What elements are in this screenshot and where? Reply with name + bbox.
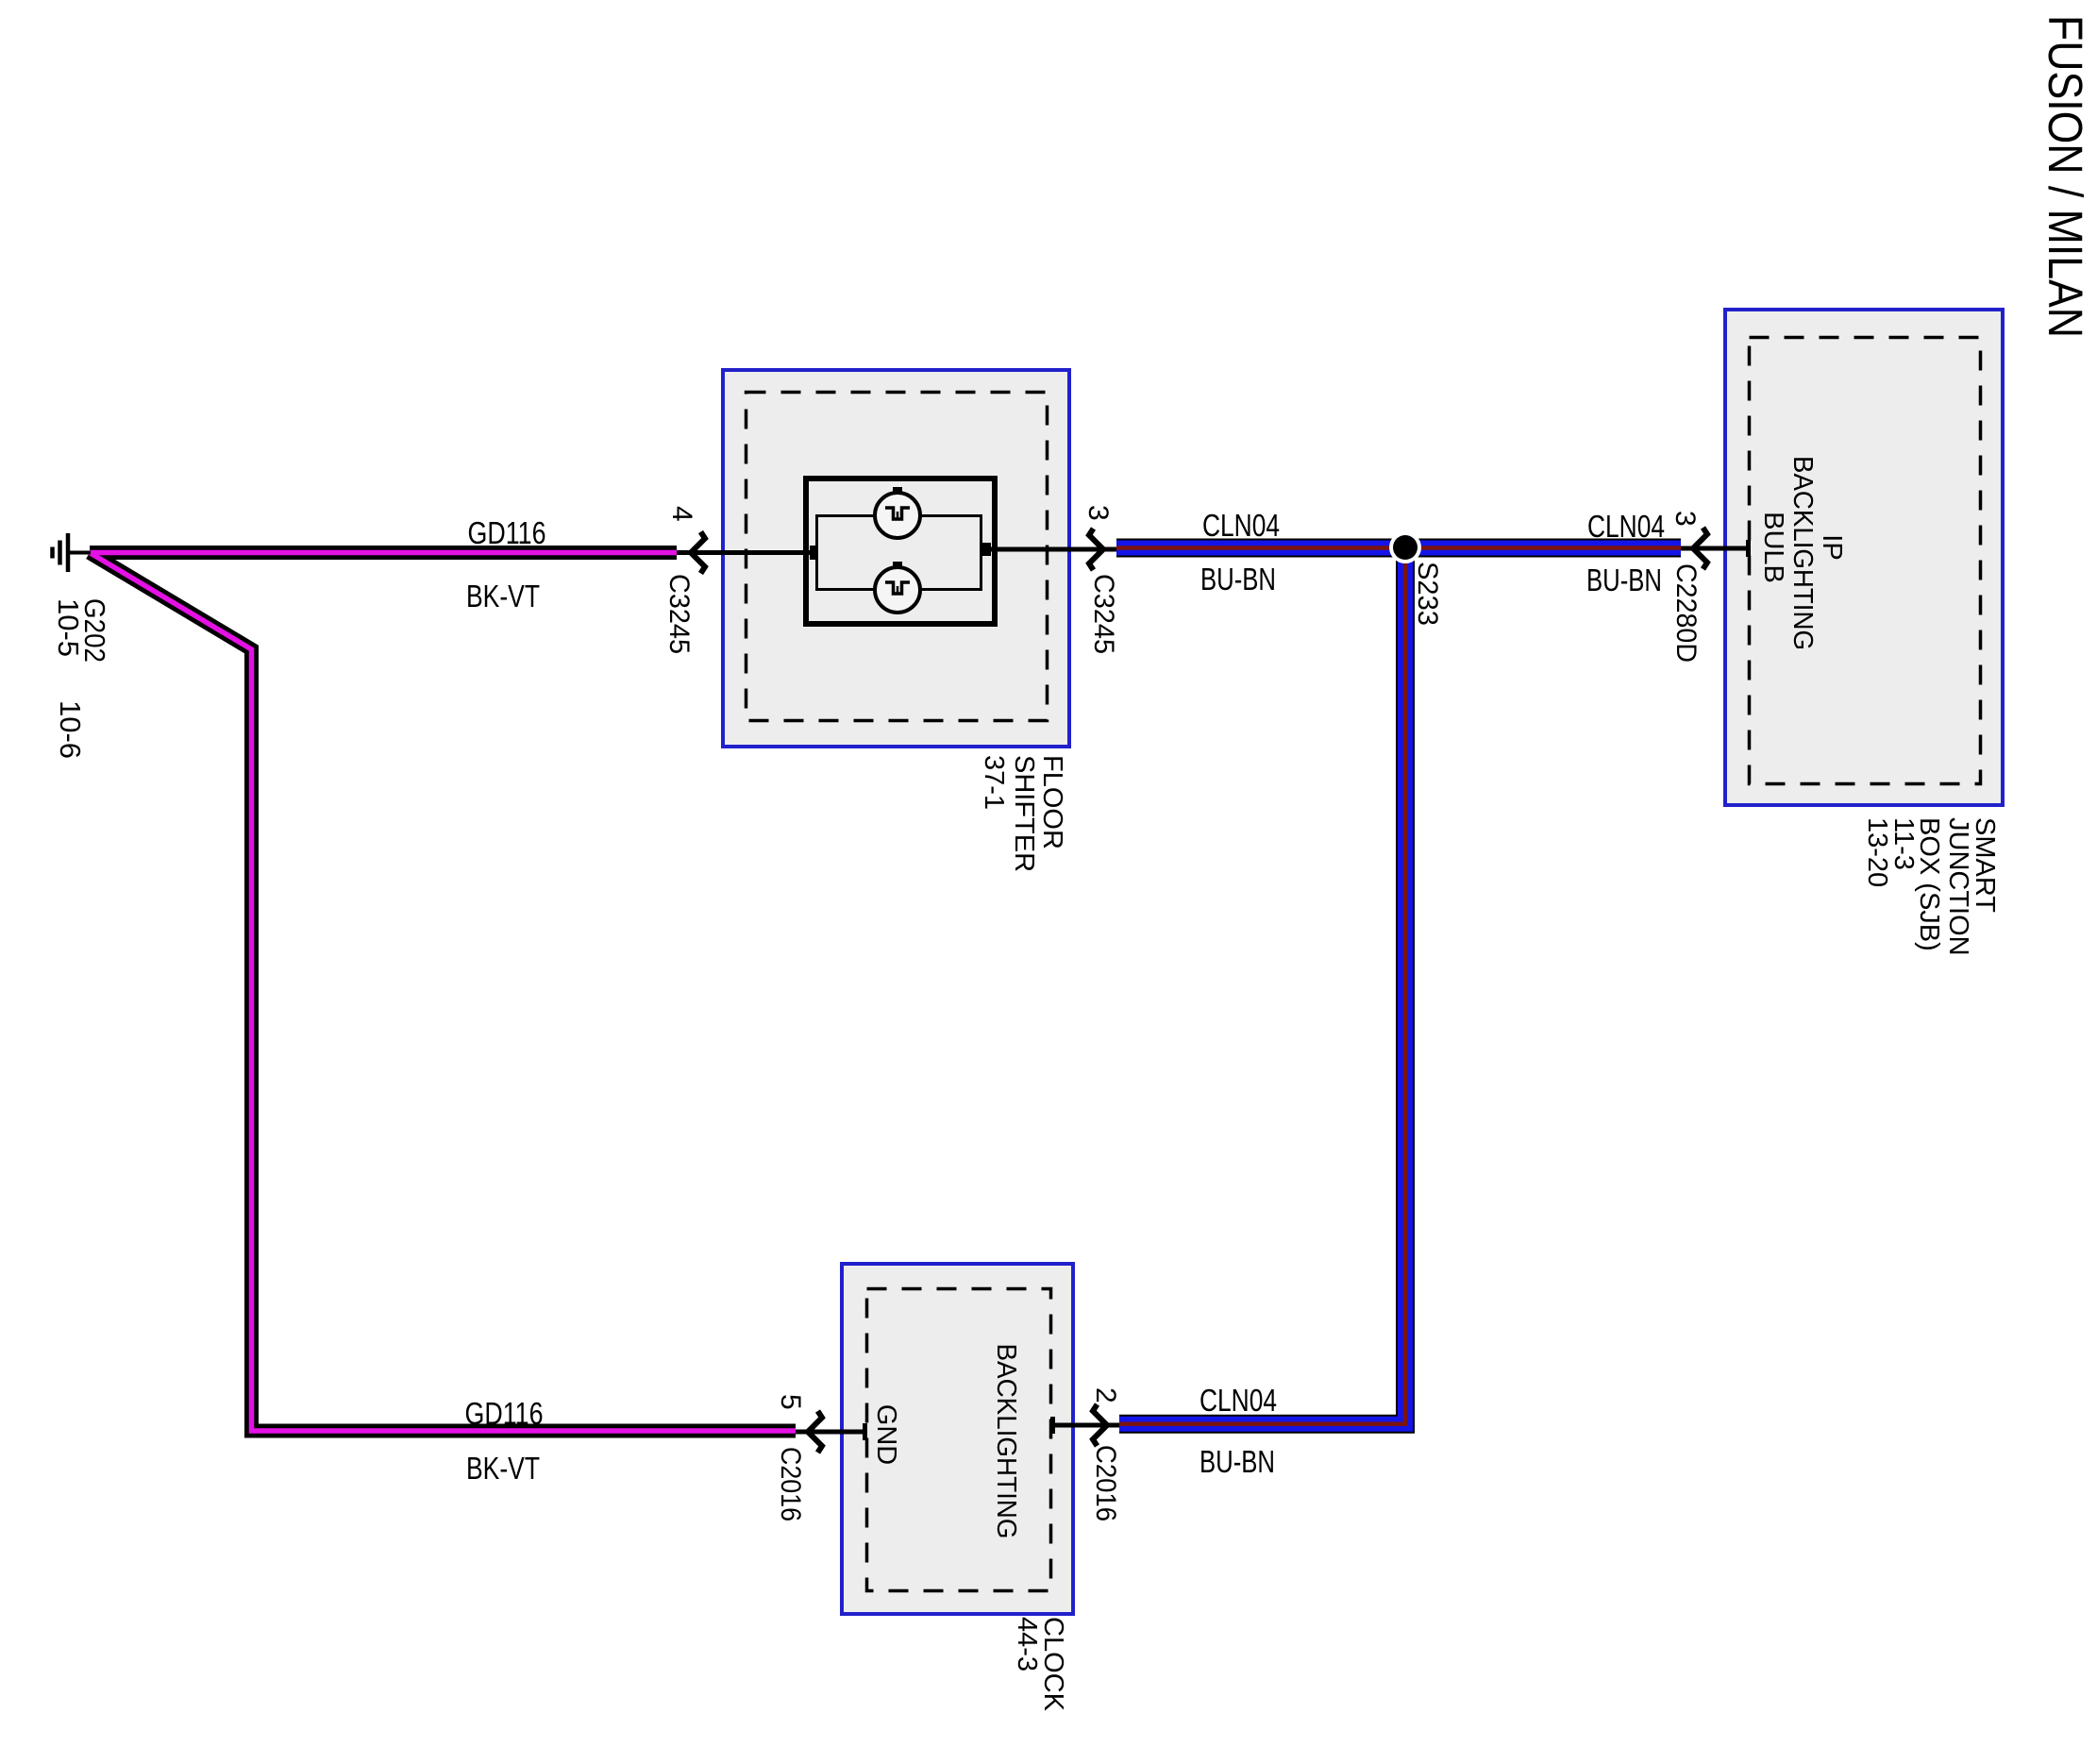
ground symbol G202 [53,533,92,572]
svg-text:10-5: 10-5 [52,598,85,657]
svg-text:BULB: BULB [1758,512,1788,583]
svg-text:JUNCTION: JUNCTION [1943,817,1973,956]
svg-text:SHIFTER: SHIFTER [1009,755,1039,872]
svg-text:BACKLIGHTING: BACKLIGHTING [1787,456,1818,650]
svg-text:4: 4 [666,506,697,522]
svg-text:BK-VT: BK-VT [466,1451,540,1486]
bulb housing box inside floor shifter [806,479,995,624]
wire GD116 BK-VT (ground wire, black with violet core) [90,553,796,1432]
svg-text:BACKLIGHTING: BACKLIGHTING [991,1344,1021,1539]
connector arrow C2016 pin 2 (right-pointing) [1093,1404,1107,1446]
svg-text:C2016: C2016 [775,1447,806,1521]
svg-text:13-20: 13-20 [1862,817,1892,887]
svg-text:CLN04: CLN04 [1199,1383,1277,1418]
svg-text:FUSION / MILAN: FUSION / MILAN [2038,15,2092,338]
svg-text:C2016: C2016 [1090,1445,1121,1521]
svg-text:C3245: C3245 [663,574,695,654]
svg-text:S233: S233 [1412,562,1443,626]
block label CLOCK 44-3 [1012,1617,1068,1712]
block label IP BACKLIGHTING BULB [1758,456,1847,650]
pin lead floor shifter pin 4 [677,550,817,555]
connector box SMART JUNCTION BOX (SJB) [1725,310,2003,805]
svg-text:IP: IP [1817,534,1847,560]
connector arrow C2016 pin 5 (left-pointing) [808,1411,822,1453]
pin lead clock pin 2 [1052,1423,1119,1428]
svg-text:44-3: 44-3 [1012,1617,1042,1672]
pin lead clock pin 5 [796,1430,865,1435]
svg-text:37-1: 37-1 [979,755,1009,810]
svg-text:3: 3 [1082,505,1114,521]
svg-text:GD116: GD116 [468,515,546,550]
connector box CLOCK [842,1264,1073,1614]
svg-text:GND: GND [871,1404,901,1465]
wire CLN04 BU-BN (blue with brown core) [1116,540,1681,1424]
svg-text:3: 3 [1669,511,1701,527]
svg-text:BK-VT: BK-VT [466,579,540,613]
svg-text:5: 5 [775,1394,806,1410]
svg-text:CLN04: CLN04 [1202,508,1280,543]
pin lead floor shifter pin 3 [981,547,1116,552]
bulb B2 (bottom) [875,562,920,613]
svg-text:BU-BN: BU-BN [1200,562,1276,596]
connector arrow C2280D pin 3 (left-pointing) [1693,528,1707,569]
svg-text:2: 2 [1090,1387,1121,1403]
block label SMART JUNCTION BOX (SJB) 11-3 13-20 [1862,817,2000,956]
svg-text:CLN04: CLN04 [1587,509,1665,544]
svg-text:10-6: 10-6 [54,700,87,759]
block label FLOOR SHIFTER 37-1 [979,755,1067,872]
bulb B1 (top) [875,487,920,538]
connector arrow C3245 pin 4 (left-pointing) [691,532,705,574]
svg-text:FLOOR: FLOOR [1037,755,1067,849]
svg-text:BU-BN: BU-BN [1586,563,1662,597]
bulb parallel rectangle [817,516,981,590]
connector box FLOOR SHIFTER [723,370,1069,747]
svg-text:C2280D: C2280D [1670,563,1702,663]
svg-text:GD116: GD116 [465,1396,544,1431]
svg-text:BU-BN: BU-BN [1199,1444,1275,1479]
svg-text:C3245: C3245 [1088,574,1119,654]
pin lead SJB pin 3 [1681,546,1749,551]
connector arrow C3245 pin 3 (right-pointing) [1089,529,1103,570]
splice S233 [1389,531,1421,563]
